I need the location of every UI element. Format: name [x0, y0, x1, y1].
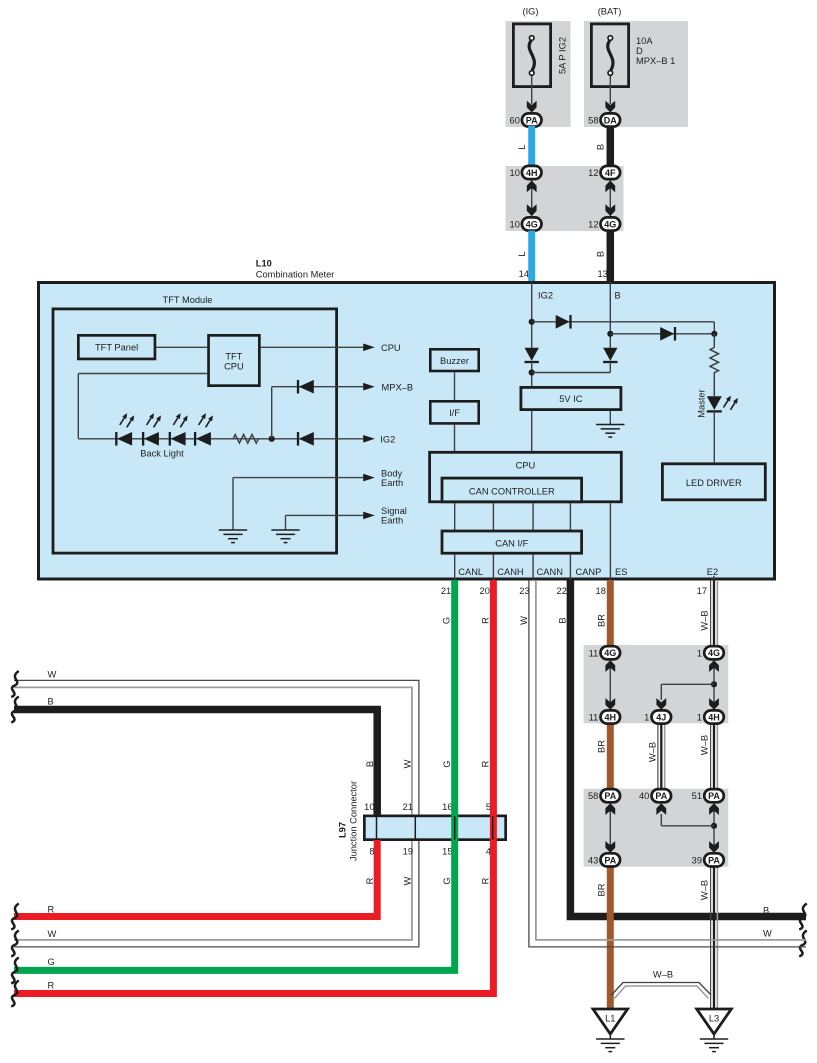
svg-text:Back Light: Back Light — [140, 448, 184, 458]
svg-text:PA: PA — [708, 791, 720, 801]
svg-text:21: 21 — [403, 802, 413, 812]
svg-text:B: B — [763, 906, 769, 916]
svg-text:4H: 4H — [708, 712, 720, 722]
svg-text:W: W — [48, 929, 57, 939]
svg-text:22: 22 — [557, 586, 567, 596]
svg-text:12: 12 — [588, 220, 598, 230]
svg-text:21: 21 — [441, 586, 451, 596]
svg-text:TFT: TFT — [225, 351, 242, 361]
svg-text:B: B — [595, 144, 605, 150]
svg-text:Earth: Earth — [381, 478, 403, 488]
svg-text:LED DRIVER: LED DRIVER — [686, 478, 742, 488]
svg-text:TFT Panel: TFT Panel — [95, 343, 138, 353]
svg-text:12: 12 — [588, 168, 598, 178]
svg-text:G: G — [442, 877, 452, 884]
svg-text:PA: PA — [655, 791, 667, 801]
svg-text:B: B — [615, 291, 621, 301]
svg-text:CPU: CPU — [381, 343, 401, 353]
svg-text:10: 10 — [364, 802, 374, 812]
svg-text:51: 51 — [692, 791, 702, 801]
svg-text:CANH: CANH — [497, 567, 523, 577]
svg-text:W–B: W–B — [647, 742, 657, 762]
svg-text:W: W — [403, 759, 413, 768]
svg-text:20: 20 — [480, 586, 490, 596]
svg-text:18: 18 — [596, 586, 606, 596]
svg-text:BR: BR — [596, 740, 606, 753]
svg-text:4G: 4G — [604, 219, 616, 229]
svg-text:Body: Body — [381, 468, 403, 478]
svg-text:4F: 4F — [605, 168, 616, 178]
svg-text:60: 60 — [510, 116, 520, 126]
svg-text:PA: PA — [604, 855, 616, 865]
svg-text:W–B: W–B — [700, 735, 710, 755]
svg-text:R: R — [480, 617, 490, 624]
svg-text:W: W — [763, 929, 772, 939]
svg-text:4G: 4G — [604, 648, 616, 658]
svg-text:40: 40 — [639, 791, 649, 801]
svg-text:CPU: CPU — [224, 361, 244, 371]
svg-text:4H: 4H — [526, 168, 538, 178]
svg-text:W: W — [48, 670, 57, 680]
svg-text:W: W — [403, 876, 413, 885]
svg-text:R: R — [48, 905, 55, 915]
svg-text:CANN: CANN — [537, 567, 563, 577]
svg-text:IG2: IG2 — [380, 435, 395, 445]
svg-text:43: 43 — [588, 855, 598, 865]
svg-text:PA: PA — [708, 855, 720, 865]
svg-text:15: 15 — [442, 847, 452, 857]
svg-text:4H: 4H — [605, 712, 617, 722]
svg-text:G: G — [442, 617, 452, 624]
svg-text:10A: 10A — [636, 36, 653, 46]
svg-text:MPX–B 1: MPX–B 1 — [636, 56, 675, 66]
svg-text:14: 14 — [519, 269, 529, 279]
svg-text:W–B: W–B — [700, 880, 710, 900]
svg-text:CANL: CANL — [458, 567, 483, 577]
svg-text:(IG): (IG) — [522, 7, 538, 17]
svg-text:16: 16 — [442, 802, 452, 812]
svg-text:Junction Connector: Junction Connector — [349, 781, 359, 861]
svg-text:B: B — [558, 617, 568, 623]
svg-text:4G: 4G — [708, 648, 720, 658]
svg-text:(BAT): (BAT) — [598, 7, 622, 17]
svg-text:G: G — [442, 760, 452, 767]
svg-text:L1: L1 — [605, 1014, 615, 1024]
svg-text:L97: L97 — [337, 822, 347, 838]
svg-text:1: 1 — [644, 713, 649, 723]
svg-text:PA: PA — [526, 115, 538, 125]
svg-text:23: 23 — [519, 586, 529, 596]
svg-text:ES: ES — [615, 567, 627, 577]
svg-text:BR: BR — [596, 883, 606, 896]
svg-text:D: D — [636, 46, 643, 56]
svg-text:5A P IG2: 5A P IG2 — [558, 37, 568, 74]
svg-text:11: 11 — [589, 713, 599, 723]
svg-text:R: R — [480, 760, 490, 767]
svg-text:4J: 4J — [656, 712, 666, 722]
svg-text:1: 1 — [697, 713, 702, 723]
svg-text:R: R — [480, 877, 490, 884]
svg-text:DA: DA — [604, 115, 617, 125]
svg-text:IG2: IG2 — [538, 291, 553, 301]
svg-text:R: R — [365, 877, 375, 884]
svg-text:Buzzer: Buzzer — [440, 356, 469, 366]
svg-text:5V IC: 5V IC — [559, 394, 583, 404]
svg-text:CAN I/F: CAN I/F — [495, 539, 528, 549]
svg-text:BR: BR — [596, 614, 606, 627]
svg-text:PA: PA — [604, 791, 616, 801]
svg-text:39: 39 — [692, 855, 702, 865]
svg-text:11: 11 — [589, 648, 599, 658]
svg-text:L10: L10 — [256, 259, 272, 269]
svg-text:L: L — [517, 144, 527, 149]
svg-text:W: W — [519, 616, 529, 625]
svg-text:I/F: I/F — [449, 408, 460, 418]
svg-text:R: R — [48, 981, 55, 991]
svg-text:4G: 4G — [526, 219, 538, 229]
svg-text:B: B — [595, 251, 605, 257]
svg-text:Signal: Signal — [381, 506, 407, 516]
svg-text:B: B — [48, 697, 54, 707]
svg-text:MPX–B: MPX–B — [382, 382, 414, 392]
svg-text:10: 10 — [510, 168, 520, 178]
svg-text:W–B: W–B — [653, 970, 673, 980]
svg-text:1: 1 — [697, 648, 702, 658]
svg-text:19: 19 — [403, 847, 413, 857]
svg-text:10: 10 — [510, 220, 520, 230]
svg-text:TFT Module: TFT Module — [163, 295, 213, 305]
svg-text:E2: E2 — [707, 567, 718, 577]
svg-text:13: 13 — [597, 269, 607, 279]
svg-text:58: 58 — [588, 791, 598, 801]
svg-text:CANP: CANP — [576, 567, 602, 577]
svg-text:Earth: Earth — [381, 516, 403, 526]
svg-text:58: 58 — [588, 116, 598, 126]
svg-text:17: 17 — [697, 586, 707, 596]
svg-text:CPU: CPU — [516, 461, 536, 471]
svg-text:CAN CONTROLLER: CAN CONTROLLER — [469, 486, 555, 496]
svg-text:W–B: W–B — [700, 610, 710, 630]
svg-text:Master: Master — [697, 389, 707, 417]
svg-text:L: L — [517, 251, 527, 256]
svg-text:Combination Meter: Combination Meter — [256, 270, 335, 280]
svg-text:G: G — [48, 957, 55, 967]
svg-text:L3: L3 — [709, 1014, 719, 1024]
